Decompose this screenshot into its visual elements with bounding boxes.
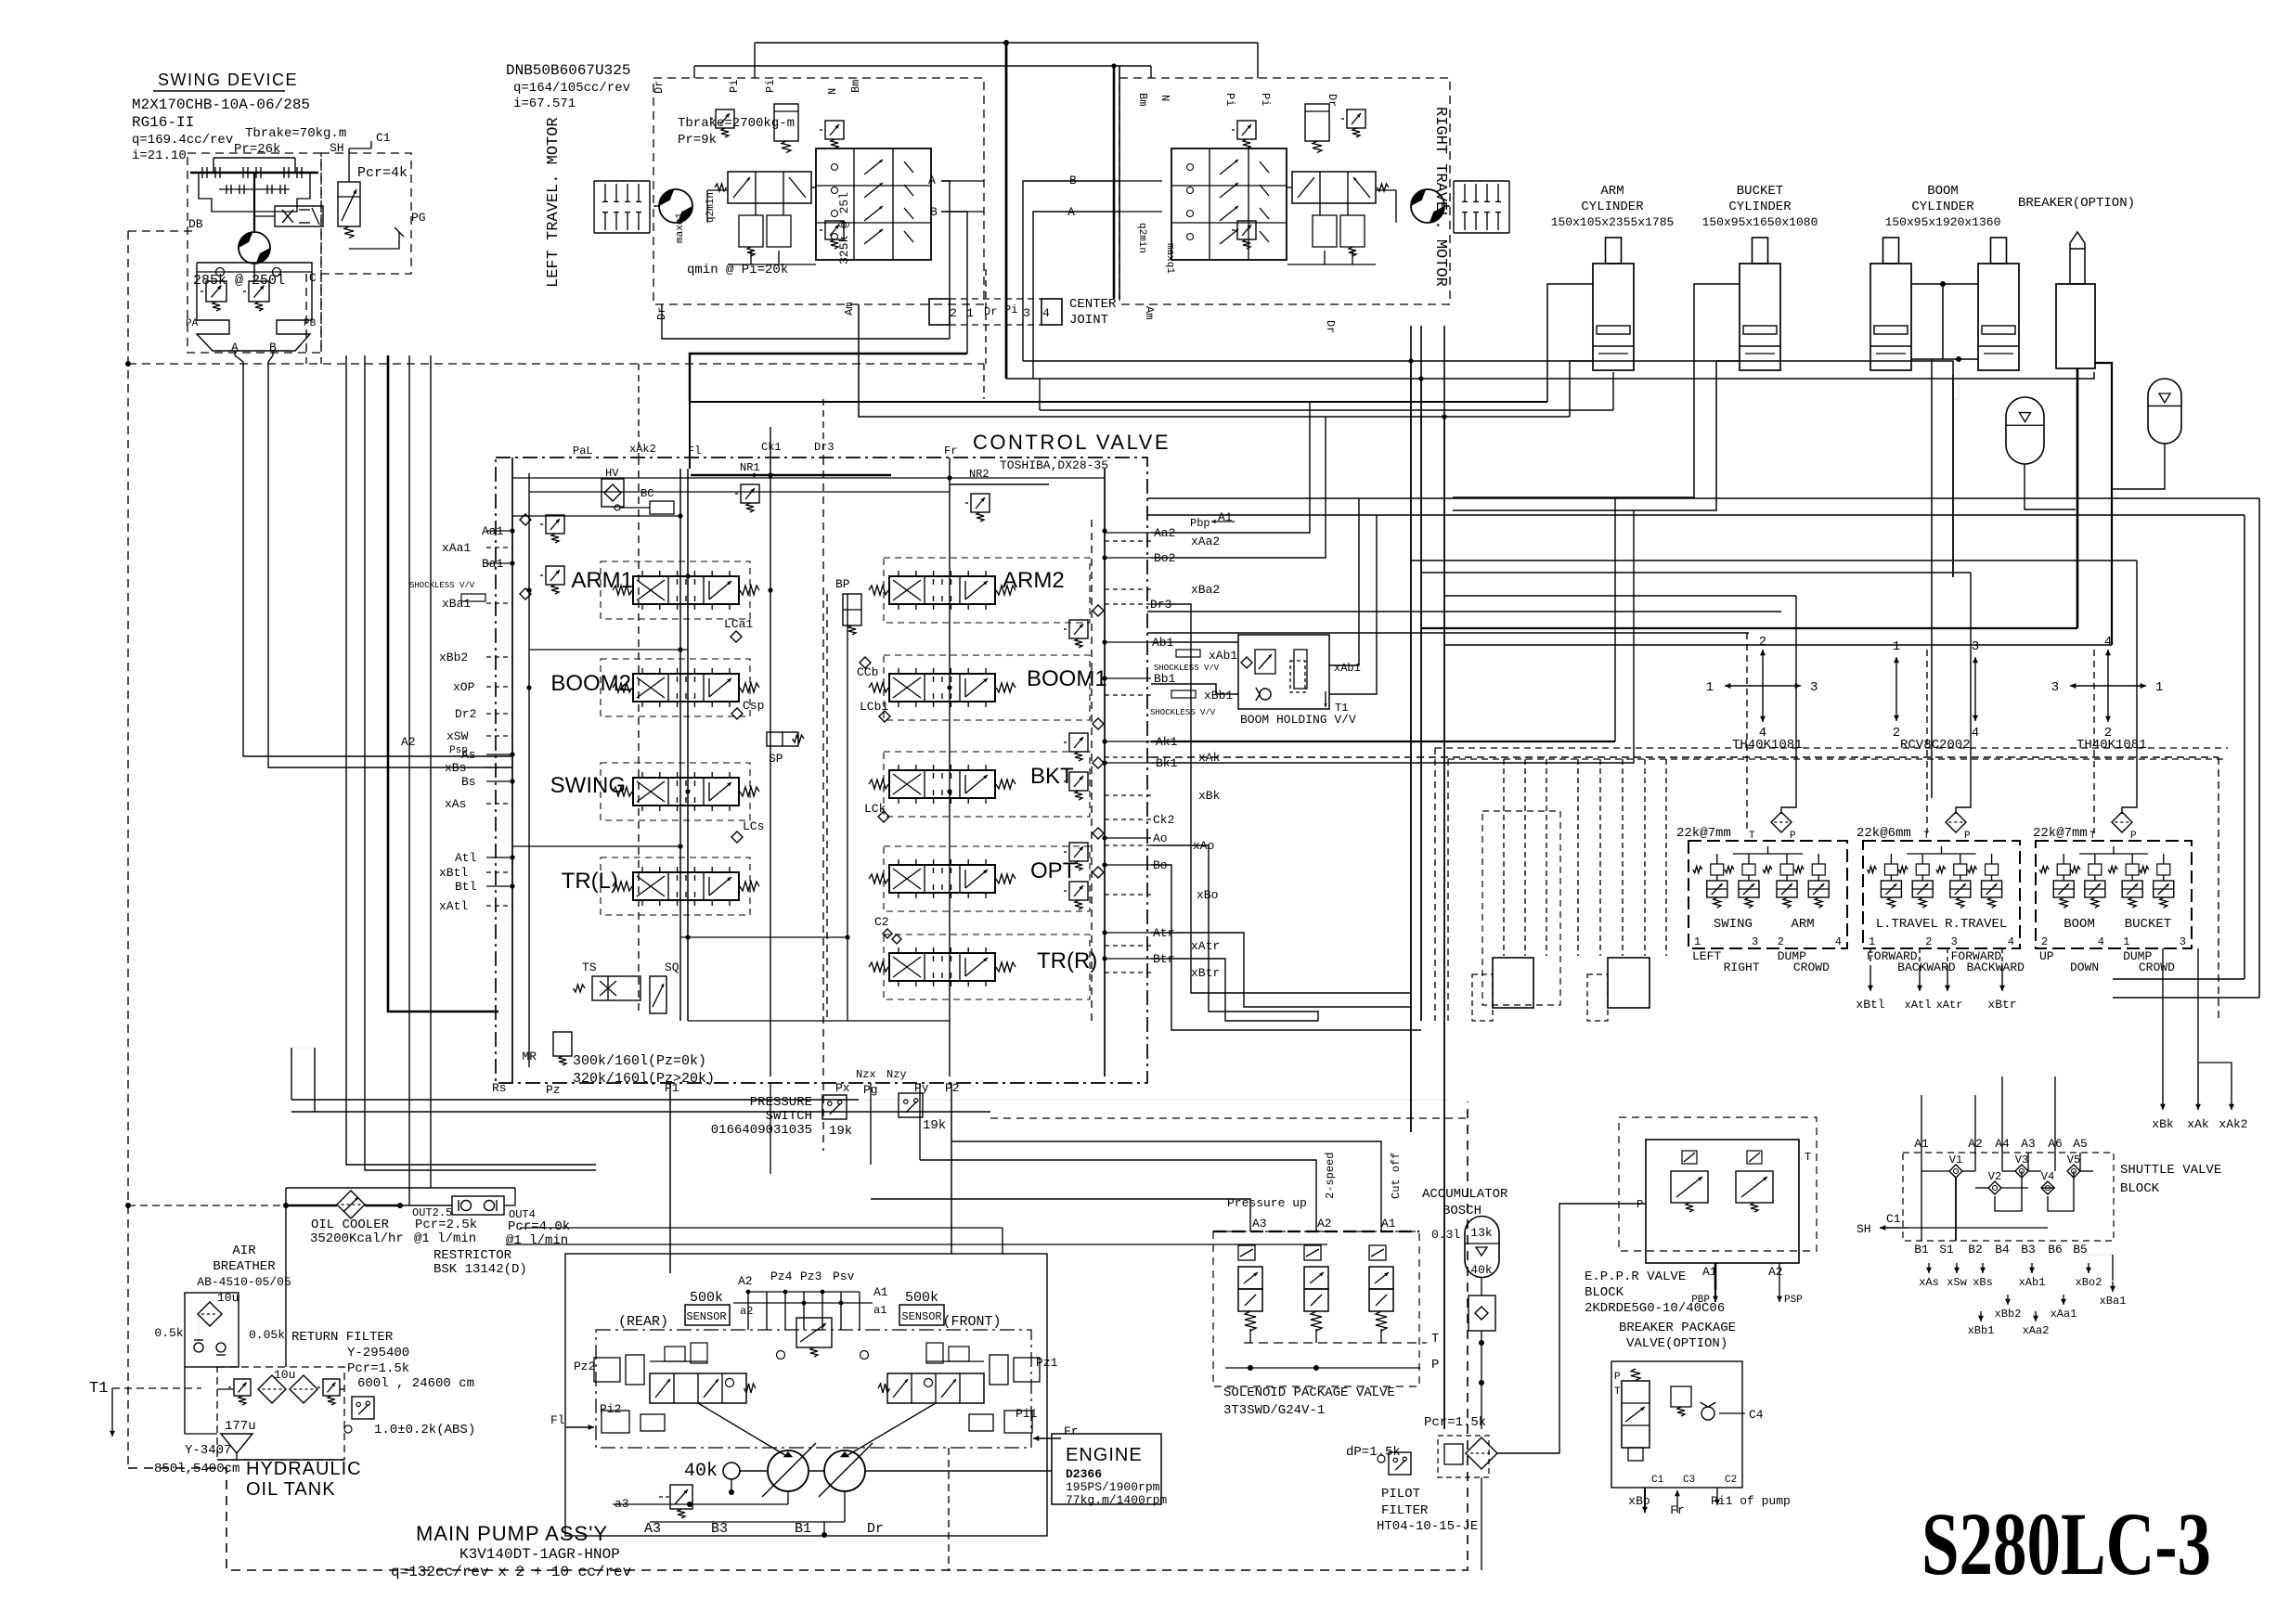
svg-text:DB: DB	[188, 217, 203, 231]
svg-text:2KDRDE5G0-10/40C06: 2KDRDE5G0-10/40C06	[1585, 1301, 1725, 1316]
svg-text:As: As	[461, 748, 476, 762]
svg-text:OPT: OPT	[1030, 858, 1077, 883]
svg-text:SHOCKLESS V/V: SHOCKLESS V/V	[409, 581, 475, 590]
svg-text:Tbrake=70kg.m: Tbrake=70kg.m	[245, 126, 346, 141]
svg-text:S1: S1	[1939, 1243, 1954, 1257]
svg-text:HV: HV	[605, 467, 619, 480]
solid junction block A	[1493, 958, 1533, 1008]
wire: Bk1 to bucket staircase	[1151, 510, 1634, 763]
svg-text:xBtr: xBtr	[1191, 966, 1220, 980]
wire: main line to pump 2	[365, 355, 596, 1170]
cooler drop to filter	[285, 1188, 287, 1367]
shuttle pass-through verticals	[1921, 1095, 1922, 1153]
svg-text:ARM: ARM	[1600, 184, 1624, 199]
svg-text:B3: B3	[2021, 1243, 2036, 1257]
svg-text:C1: C1	[1886, 1212, 1901, 1226]
svg-text:Bs: Bs	[461, 775, 476, 789]
valve spool SWING	[601, 763, 750, 820]
svg-text:500k: 500k	[905, 1290, 938, 1306]
svg-text:MAIN PUMP ASS'Y: MAIN PUMP ASS'Y	[416, 1522, 608, 1545]
svg-text:D2366: D2366	[1066, 1467, 1102, 1481]
relief valve bottom	[1237, 221, 1256, 239]
svg-text:1: 1	[1706, 680, 1714, 695]
wire: pilot filter to EPPR	[1497, 1204, 1646, 1453]
counterbalance valve	[728, 172, 811, 203]
svg-text:10u: 10u	[274, 1368, 295, 1382]
svg-text:xSW: xSW	[446, 729, 469, 743]
svg-text:Fr: Fr	[944, 445, 957, 458]
svg-text:CENTER: CENTER	[1069, 297, 1117, 312]
svg-text:BLOCK: BLOCK	[1585, 1285, 1624, 1300]
solenoid T P lines	[1244, 1342, 1427, 1344]
wire: left dashed border	[127, 231, 129, 1468]
rcv pilot output arrows	[1870, 965, 1871, 991]
svg-text:xBo2: xBo2	[2076, 1276, 2102, 1289]
EPPR outputs	[1714, 1263, 1717, 1290]
swing motor M1	[239, 232, 270, 264]
svg-text:xBb2: xBb2	[439, 651, 468, 664]
svg-text:xBa1: xBa1	[2100, 1295, 2127, 1308]
boom holding valve assembly	[1238, 635, 1329, 709]
EPPR proportional valve 2	[1736, 1171, 1773, 1203]
shuttle valve block boundary	[1903, 1153, 2114, 1241]
wire: Bo route right	[1151, 865, 1421, 1030]
svg-text:Pi: Pi	[764, 80, 777, 93]
wire: pressure up feed	[871, 1199, 1250, 1231]
svg-text:RCV8C2002: RCV8C2002	[1900, 738, 1971, 753]
svg-text:Tbrake=2700kg-m: Tbrake=2700kg-m	[678, 116, 795, 131]
svg-text:xOP: xOP	[453, 680, 475, 694]
svg-text:Bm: Bm	[1136, 93, 1149, 106]
svg-text:xAtl: xAtl	[1905, 999, 1932, 1012]
svg-text:TOSHIBA,DX28-35: TOSHIBA,DX28-35	[1000, 458, 1108, 472]
wire: joint Dr return left	[662, 304, 950, 339]
svg-text:AB-4510-05/05: AB-4510-05/05	[197, 1275, 291, 1289]
svg-text:BOOM1: BOOM1	[1027, 666, 1107, 691]
svg-text:R.TRAVEL: R.TRAVEL	[1945, 917, 2007, 932]
svg-text:C2: C2	[1725, 1475, 1737, 1486]
svg-text:xBa2: xBa2	[1191, 583, 1220, 597]
svg-text:xBb1: xBb1	[1204, 689, 1233, 702]
svg-text:SWING: SWING	[550, 773, 626, 798]
bucket cylinder	[1753, 238, 1768, 264]
svg-text:Pr=26k: Pr=26k	[234, 142, 280, 157]
wire: Ak1 to bucket staircase	[1151, 741, 1615, 742]
svg-text:xBb2: xBb2	[1995, 1308, 2022, 1321]
relief cluster right column	[1069, 620, 1088, 638]
svg-text:40k: 40k	[684, 1461, 718, 1482]
svg-text:Pi1: Pi1	[1016, 1407, 1038, 1421]
dashed pilot enclosure	[1482, 811, 1560, 1005]
svg-text:LEFT: LEFT	[1692, 949, 1721, 963]
svg-text:A3: A3	[2021, 1137, 2036, 1151]
restrictor outputs	[504, 1205, 515, 1206]
svg-text:Pbp: Pbp	[1190, 517, 1210, 530]
svg-text:a1: a1	[873, 1304, 886, 1317]
pilot stub wires left edge	[486, 530, 512, 532]
svg-text:E.P.P.R VALVE: E.P.P.R VALVE	[1585, 1270, 1686, 1284]
wire: xAo route right	[1151, 845, 1318, 1021]
svg-text:MR: MR	[522, 1050, 537, 1063]
svg-text:xSw: xSw	[1947, 1276, 1967, 1289]
engine box	[1052, 1434, 1161, 1504]
svg-text:3: 3	[1951, 935, 1958, 948]
svg-text:CROWD: CROWD	[2139, 960, 2175, 974]
accumulator ACC2	[2148, 379, 2181, 444]
pump regulator rear	[650, 1373, 746, 1403]
svg-text:Pi: Pi	[728, 80, 741, 93]
svg-text:19k: 19k	[829, 1124, 852, 1139]
svg-text:Pcr=4k: Pcr=4k	[357, 165, 408, 181]
svg-text:TR(L): TR(L)	[562, 869, 618, 894]
boom cylinder left	[1883, 238, 1899, 264]
EPPR dashed enclosure	[1619, 1117, 1817, 1251]
wire: Atr staircase	[1151, 933, 1411, 1007]
servo piston lines	[698, 1403, 788, 1457]
valve spool OPT	[884, 846, 1090, 911]
wire: xAk dashed out	[1151, 756, 2219, 758]
svg-text:A1: A1	[873, 1285, 888, 1299]
svg-text:S280LC-3: S280LC-3	[1921, 1494, 2211, 1593]
final drive gearbox	[594, 180, 650, 182]
pump regulator pilot rects rear	[665, 1347, 685, 1361]
svg-text:BOSCH: BOSCH	[1443, 1204, 1481, 1218]
svg-text:2-speed: 2-speed	[1324, 1153, 1337, 1199]
svg-text:4: 4	[2008, 935, 2014, 948]
gear pump	[723, 1463, 740, 1479]
svg-text:xAk: xAk	[2187, 1117, 2209, 1131]
svg-text:TR(R): TR(R)	[1037, 948, 1097, 973]
wire: return line to filter	[430, 355, 432, 1188]
svg-text:LCa1: LCa1	[724, 617, 753, 631]
svg-text:1: 1	[1869, 935, 1875, 948]
shuttle/flushing valves	[1340, 215, 1365, 247]
main pump P2	[824, 1450, 865, 1491]
solid junction block B	[1608, 958, 1650, 1008]
svg-text:320k/160l(Pz>20k): 320k/160l(Pz>20k)	[573, 1071, 715, 1087]
wire: breaker return bus	[1421, 627, 2077, 629]
svg-text:q=132cc/rev x 2 + 10 cc/rev: q=132cc/rev x 2 + 10 cc/rev	[391, 1564, 632, 1580]
svg-text:ARM2: ARM2	[1003, 568, 1065, 593]
svg-text:A2: A2	[401, 735, 416, 749]
svg-text:SH: SH	[1857, 1222, 1871, 1236]
relief valve top	[1237, 121, 1256, 139]
svg-text:xBb1: xBb1	[1968, 1324, 1995, 1337]
svg-text:maxq1: maxq1	[1164, 243, 1175, 274]
pump regulator front	[887, 1373, 984, 1403]
svg-text:Fl: Fl	[550, 1413, 565, 1427]
svg-text:A1: A1	[1381, 1217, 1396, 1231]
motor internal links	[1376, 189, 1396, 191]
svg-text:PSP: PSP	[1784, 1295, 1803, 1306]
svg-text:BC: BC	[640, 487, 653, 500]
throttle to PG	[349, 232, 399, 249]
svg-text:Pressure up: Pressure up	[1227, 1196, 1307, 1210]
svg-text:K3V140DT-1AGR-HNOP: K3V140DT-1AGR-HNOP	[459, 1546, 620, 1563]
svg-text:LCk: LCk	[864, 802, 886, 816]
svg-text:T1: T1	[1335, 702, 1348, 715]
svg-text:BOOM: BOOM	[2064, 917, 2095, 932]
svg-text:2: 2	[1759, 635, 1766, 650]
svg-text:4: 4	[1972, 726, 1979, 741]
swing motor housing	[197, 263, 312, 351]
svg-text:Px: Px	[835, 1081, 850, 1095]
wire: bucket cylinder feed A	[1453, 284, 1740, 497]
parking brake solenoid valve	[275, 206, 323, 226]
svg-text:3T3SWD/G24V-1: 3T3SWD/G24V-1	[1223, 1403, 1325, 1418]
wire: heavy feed to control valve	[388, 355, 498, 1012]
wire: center joint pass-through lines	[941, 181, 950, 339]
svg-text:T: T	[1431, 1332, 1439, 1347]
svg-text:Dr: Dr	[653, 81, 666, 94]
wire: joint line y389 right	[1023, 361, 1953, 577]
svg-text:i=21.10: i=21.10	[132, 148, 187, 163]
svg-text:150x105x2355x1785: 150x105x2355x1785	[1551, 215, 1675, 229]
pilot filter relief	[1444, 1444, 1463, 1464]
relief valve RVb	[249, 281, 269, 302]
svg-text:P1: P1	[665, 1081, 679, 1095]
wire: long runs to right margin	[1147, 497, 2259, 499]
svg-text:SWING: SWING	[1714, 917, 1753, 932]
rail: Fr	[949, 458, 951, 1076]
svg-text:Y-3407: Y-3407	[185, 1443, 231, 1458]
svg-text:Dr: Dr	[867, 1521, 884, 1537]
svg-text:0.05k: 0.05k	[249, 1328, 285, 1342]
svg-text:OIL TANK: OIL TANK	[246, 1479, 336, 1500]
svg-text:SHUTTLE VALVE: SHUTTLE VALVE	[2120, 1163, 2221, 1178]
svg-text:T: T	[1614, 1386, 1621, 1398]
svg-text:xAa2: xAa2	[2023, 1324, 2050, 1337]
svg-text:(FRONT): (FRONT)	[942, 1314, 1001, 1330]
travel brake valve cluster	[716, 110, 734, 128]
svg-text:xBs: xBs	[1973, 1276, 1993, 1289]
svg-text:600l , 24600 cm: 600l , 24600 cm	[357, 1376, 474, 1391]
svg-text:T: T	[1749, 831, 1755, 842]
svg-text:BACKWARD: BACKWARD	[1967, 960, 2025, 974]
svg-text:SOLENOID PACKAGE VALVE: SOLENOID PACKAGE VALVE	[1223, 1386, 1395, 1400]
svg-text:1: 1	[2155, 680, 2163, 695]
rail: mid dashed pair	[826, 594, 828, 1021]
svg-text:CYLINDER: CYLINDER	[1911, 200, 1974, 214]
shuttle block internal wires	[1921, 1153, 1922, 1241]
svg-text:xAtl: xAtl	[439, 899, 468, 913]
svg-text:RIGHT TRAVEL. MOTOR: RIGHT TRAVEL. MOTOR	[1431, 107, 1449, 287]
svg-text:q=164/105cc/rev: q=164/105cc/rev	[513, 81, 630, 96]
svg-text:Am: Am	[1143, 306, 1156, 319]
svg-text:Dr2: Dr2	[455, 707, 476, 721]
tank pressure switch	[352, 1397, 374, 1419]
svg-text:P: P	[1431, 1358, 1439, 1373]
wire: Aa2 staircase to arm cylinder	[1151, 402, 1310, 533]
wire: cut off feed	[951, 1141, 1381, 1231]
wire: Fl riser heavy	[689, 402, 691, 469]
valve spool BOOM1	[884, 655, 1090, 720]
wire: swing B port down	[272, 351, 274, 355]
rail: supply left	[511, 458, 513, 1083]
svg-text:BLOCK: BLOCK	[2120, 1181, 2160, 1196]
svg-text:LCs: LCs	[743, 819, 764, 833]
svg-text:2: 2	[1893, 726, 1900, 741]
svg-text:BREAKER PACKAGE: BREAKER PACKAGE	[1619, 1321, 1736, 1335]
svg-text:Pcr=1.5k: Pcr=1.5k	[1424, 1415, 1486, 1430]
wire: arm cylinder feed A	[1547, 284, 1593, 402]
svg-text:L.TRAVEL: L.TRAVEL	[1876, 917, 1938, 932]
travel motor hydraulic motor	[659, 189, 692, 223]
svg-text:@1 l/min: @1 l/min	[414, 1231, 476, 1246]
rail: xAk2 dashed	[638, 458, 640, 1012]
svg-text:Psv: Psv	[833, 1270, 855, 1283]
svg-text:Pz3: Pz3	[800, 1270, 822, 1283]
oil cooler	[337, 1191, 365, 1218]
svg-text:A2: A2	[1317, 1217, 1332, 1231]
2-speed travel spool	[1171, 148, 1287, 260]
relief valve RVa	[206, 281, 226, 302]
travel motor dashed enclosure	[1119, 78, 1450, 304]
junction dots inside control valve	[510, 528, 514, 533]
wire: dashed pilot bus pair right	[1435, 747, 2228, 749]
svg-text:Pz2: Pz2	[574, 1360, 595, 1373]
rcv far right outputs	[2162, 1082, 2164, 1110]
tank outline	[185, 1367, 217, 1434]
wire: top pilot bus	[694, 65, 1151, 67]
svg-text:T1: T1	[89, 1380, 108, 1398]
svg-text:N: N	[826, 88, 839, 95]
svg-text:xBtl: xBtl	[1856, 998, 1884, 1012]
rcv filter P left	[1771, 812, 1792, 832]
wire: top feed bus	[755, 42, 1258, 44]
svg-text:A: A	[928, 174, 936, 187]
svg-text:B3: B3	[711, 1521, 728, 1537]
svg-text:13k: 13k	[1470, 1226, 1493, 1240]
main pump P1	[768, 1450, 809, 1491]
svg-text:LEFT TRAVEL. MOTOR: LEFT TRAVEL. MOTOR	[545, 117, 563, 288]
wire: Dr3 route right	[1151, 604, 1411, 993]
svg-text:Rs: Rs	[492, 1081, 507, 1095]
svg-text:a3: a3	[615, 1497, 629, 1511]
solenoid valve SV1	[1238, 1267, 1262, 1289]
svg-text:P: P	[2130, 831, 2137, 842]
svg-text:maxq1: maxq1	[675, 213, 686, 243]
svg-text:xAtr: xAtr	[1936, 999, 1963, 1012]
svg-text:C4: C4	[1749, 1408, 1764, 1422]
svg-text:Nzx: Nzx	[856, 1068, 876, 1081]
joystick travel arrows	[1895, 657, 1897, 689]
breaker tool symbol	[2070, 232, 2085, 249]
breaker selector valve	[1622, 1381, 1650, 1448]
travel brake valve cluster	[1347, 110, 1365, 128]
svg-text:PRESSURE: PRESSURE	[750, 1095, 812, 1110]
svg-text:RETURN FILTER: RETURN FILTER	[291, 1330, 394, 1345]
svg-text:CYLINDER: CYLINDER	[1581, 200, 1644, 214]
svg-text:FILTER: FILTER	[1381, 1503, 1429, 1518]
svg-text:SQ: SQ	[665, 960, 679, 974]
svg-text:Dr: Dr	[1326, 94, 1339, 107]
wire: arm cylinder bus B	[859, 304, 1570, 417]
svg-text:Atl: Atl	[455, 851, 477, 865]
svg-text:ACCUMULATOR: ACCUMULATOR	[1422, 1187, 1508, 1202]
EPPR proportional valve 1	[1671, 1171, 1708, 1203]
svg-text:BKT: BKT	[1030, 764, 1074, 789]
wire: swing B line	[268, 355, 512, 767]
wire: arm cylinder feed B	[1570, 361, 1593, 417]
svg-text:Pi: Pi	[1223, 93, 1236, 106]
svg-text:xBa1: xBa1	[442, 597, 471, 611]
svg-text:xAb1: xAb1	[1334, 662, 1361, 675]
relief valve cluster Aa1	[546, 515, 564, 534]
svg-text:CONTROL VALVE: CONTROL VALVE	[973, 431, 1171, 454]
svg-text:150x95x1650x1080: 150x95x1650x1080	[1702, 215, 1818, 229]
wire: joint line y408 right	[1006, 372, 2094, 379]
svg-text:3: 3	[1023, 306, 1030, 320]
counterbalance valve	[1292, 172, 1376, 203]
svg-text:RESTRICTOR: RESTRICTOR	[433, 1248, 512, 1263]
valve spool BKT	[884, 752, 1090, 817]
svg-text:CYLINDER: CYLINDER	[1728, 200, 1792, 214]
wire: Btr staircase	[1151, 959, 1318, 1021]
svg-text:4: 4	[1042, 306, 1050, 320]
svg-text:SENSOR: SENSOR	[686, 1310, 726, 1323]
svg-text:i=67.571: i=67.571	[513, 97, 576, 111]
svg-text:Nzy: Nzy	[886, 1068, 907, 1081]
svg-text:TH40K1081: TH40K1081	[2077, 738, 2147, 753]
RCV block SWING/ARM	[1688, 841, 1847, 948]
svg-text:q=169.4cc/rev: q=169.4cc/rev	[132, 133, 233, 148]
svg-text:22k@7mm: 22k@7mm	[1676, 826, 1731, 841]
svg-text:3: 3	[1752, 935, 1758, 948]
svg-text:1: 1	[1694, 935, 1701, 948]
pilot filter element	[1466, 1437, 1497, 1469]
svg-text:Ao: Ao	[1153, 831, 1168, 845]
svg-text:P: P	[1614, 1372, 1621, 1383]
svg-text:Pz4: Pz4	[770, 1270, 793, 1283]
svg-text:T: T	[1923, 831, 1930, 842]
svg-text:C1: C1	[376, 131, 391, 145]
wire: center vertical trio	[1410, 326, 1412, 1132]
svg-text:B: B	[930, 205, 938, 219]
wire: Bo2 staircase	[1151, 417, 1326, 558]
svg-text:2: 2	[1778, 935, 1784, 948]
wire: lower horizontal buses	[291, 1099, 859, 1101]
rail: top horizontals	[512, 477, 1105, 479]
RCV block BOOM/BUCKET	[2036, 841, 2192, 948]
svg-text:UP: UP	[2039, 949, 2054, 963]
main pump dash-dot box	[596, 1330, 1031, 1448]
wire: accumulator ACC1 drain	[2025, 464, 2076, 509]
svg-text:4: 4	[1835, 935, 1842, 948]
svg-text:Pz: Pz	[546, 1083, 561, 1097]
rail: right inner dashed	[1091, 520, 1093, 1021]
svg-text:M2X170CHB-10A-06/285: M2X170CHB-10A-06/285	[132, 97, 310, 113]
svg-text:Pi: Pi	[1259, 93, 1272, 106]
svg-text:T: T	[2089, 831, 2096, 842]
check block under accumulator	[1468, 1295, 1495, 1331]
svg-text:Ck2: Ck2	[1153, 813, 1174, 827]
svg-text:BUCKET: BUCKET	[1737, 184, 1783, 199]
rail: right supply	[1104, 469, 1106, 1076]
valve spool ARM2	[884, 558, 1090, 623]
svg-text:Csp: Csp	[743, 699, 764, 713]
motor internal links	[707, 189, 728, 191]
dashed pilot risers	[1503, 759, 1505, 956]
travel motor hydraulic motor	[1411, 189, 1444, 223]
pump Dr dashed drop	[948, 1448, 950, 1570]
svg-text:0.5k: 0.5k	[154, 1326, 183, 1340]
svg-text:qmin @ Pi=20k: qmin @ Pi=20k	[687, 263, 788, 277]
wire: bus stub to junction	[1040, 379, 1592, 410]
motor port stubs	[941, 180, 984, 182]
air breather assembly	[185, 1293, 239, 1367]
svg-text:C2: C2	[874, 915, 889, 929]
